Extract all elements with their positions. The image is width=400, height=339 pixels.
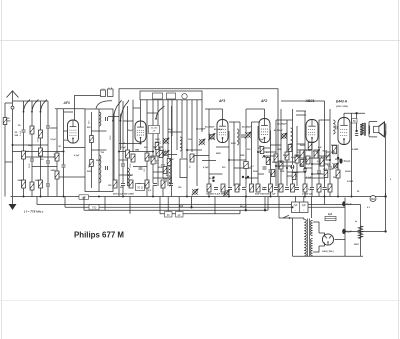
wire main bus 2: [37, 204, 361, 206]
value label z10: [323, 169, 328, 171]
capacitor C20 electrolytic: [342, 201, 352, 206]
meter circle M ohm: [370, 196, 376, 202]
label 7uF bus: [179, 205, 184, 208]
junction dot 16: [351, 196, 353, 198]
trimmer TC8: [281, 133, 288, 140]
svg-text:50pF: 50pF: [303, 159, 308, 161]
rotated label 12: [160, 140, 162, 144]
wire bus stub 8: [303, 197, 305, 203]
wire link 22: [258, 151, 276, 153]
wire link 39: [92, 149, 107, 151]
svg-text:0,1μF: 0,1μF: [313, 151, 319, 153]
wire bus stub 16: [36, 197, 38, 205]
wire mixer vertical 1: [122, 101, 124, 197]
wire link 19: [229, 159, 246, 161]
trimmer TC4 padder: [208, 134, 215, 141]
label EL sub: [336, 105, 348, 108]
wire avc top link: [5, 102, 13, 104]
junction dot 7: [186, 196, 188, 198]
svg-text:45-160pF: 45-160pF: [241, 126, 252, 129]
power transformer T3 secondary lower: [311, 239, 313, 256]
wire link z5: [305, 167, 312, 169]
wire bus stub 9: [311, 197, 313, 219]
value box 50: [352, 118, 357, 123]
wire link 23: [270, 144, 281, 146]
wire t1 inner left: [91, 112, 93, 188]
wire mains return: [292, 218, 294, 256]
wire link 30: [133, 107, 141, 109]
tube V4 AF2 detector: [259, 109, 270, 143]
junction dot 25: [140, 143, 142, 145]
trimmer TC6: [223, 190, 230, 197]
resistor R28: [333, 145, 337, 154]
tuning capacitor section 2: [167, 93, 176, 99]
label tube AF2: [260, 99, 267, 103]
capacitor Cf2: [310, 187, 315, 190]
label 45-160pF osc: [195, 128, 206, 131]
capacitor C10: [138, 166, 143, 169]
value label 9: [144, 147, 148, 149]
wire mixer vertical 13: [186, 100, 188, 197]
resistor R25: [314, 150, 318, 158]
resistor Rz4: [288, 145, 292, 152]
label rectifier type: [322, 251, 334, 253]
label 0,5MOhm: [298, 152, 304, 154]
svg-text:30000: 30000: [345, 171, 351, 173]
resistor Rm3: [163, 167, 167, 174]
wire det branch 7: [296, 126, 298, 186]
loudspeaker driver: [374, 126, 379, 132]
junction dot 24: [311, 163, 313, 165]
scan artifact right rule: [398, 0, 400, 339]
resistor R30 dropper: [358, 226, 362, 239]
value label 24: [120, 187, 124, 189]
resistor R5: [22, 180, 26, 188]
value label r13: [357, 191, 360, 193]
label 0,1uF f: [306, 150, 312, 152]
capacitor C8 t1: [105, 166, 108, 171]
value label z11: [331, 152, 336, 154]
tube V3 AF3 IF amplifier: [217, 109, 228, 143]
resistor R12: [126, 150, 130, 158]
svg-text:0,1μF: 0,1μF: [291, 157, 297, 159]
capacitor C13: [291, 165, 294, 170]
rotated label 4: [89, 120, 91, 124]
wire mixer vertical 12: [181, 100, 183, 158]
wire if top rail: [205, 108, 223, 110]
label 2000: [18, 180, 24, 182]
wire if branch 3: [233, 122, 235, 186]
wire hv secondary top: [313, 222, 319, 233]
svg-text:40-160pF: 40-160pF: [274, 129, 283, 132]
value label r9: [327, 165, 331, 167]
resistor R15: [151, 156, 155, 164]
wire bus stub 17: [104, 197, 106, 211]
wire mixer vertical 10: [171, 100, 173, 136]
label 30uF d: [209, 178, 215, 180]
resistor R24: [306, 156, 310, 164]
wire link 41: [246, 177, 258, 179]
switch S2 wave band: [112, 100, 129, 122]
wire link 29: [64, 111, 74, 113]
terminal block ANT: [101, 89, 106, 97]
svg-text:1000: 1000: [35, 180, 41, 182]
svg-text:50pF: 50pF: [168, 129, 173, 131]
svg-text:8μF: 8μF: [346, 202, 351, 206]
inductor L1 primary: [99, 112, 101, 126]
wire abc1 link 2: [296, 114, 306, 116]
IF transformer T1 shield box: [85, 109, 113, 192]
wire mixer vertical 2: [127, 106, 129, 186]
resistor Rz6: [300, 160, 304, 167]
wire link 1: [13, 151, 64, 153]
wire mains line: [279, 217, 304, 219]
resistor R2: [39, 130, 43, 138]
resistor R9: [55, 171, 59, 179]
wire input branch 3: [40, 101, 42, 197]
tube V6 E443H output: [338, 113, 350, 144]
junction J2: [212, 180, 214, 182]
resistor Rd5: [235, 184, 239, 192]
capacitor Ce6: [285, 187, 290, 190]
label cluster values 1: [113, 194, 134, 196]
wire input branch 1: [23, 101, 25, 197]
wire if branch 2: [228, 131, 230, 197]
value label r22: [64, 140, 69, 142]
wire hv rail: [344, 198, 346, 257]
capacitor C5: [46, 183, 51, 186]
wire det branch 6: [292, 109, 294, 186]
wire mixer vertical 15: [196, 100, 198, 186]
wire screen drop: [356, 113, 358, 131]
resistor Rm2: [159, 151, 163, 158]
svg-text:Philips 677 M: Philips 677 M: [74, 230, 124, 239]
svg-text:30-: 30-: [15, 132, 18, 134]
resistor R26: [320, 158, 324, 166]
label 80uF: [240, 205, 247, 209]
wire det branch 5: [286, 120, 288, 186]
wire bus stub 18: [129, 197, 131, 214]
value label 30: [326, 189, 330, 191]
value label 20: [313, 151, 319, 153]
label 45-160pF if2: [241, 126, 252, 129]
value label 25: [148, 190, 152, 192]
value label 6: [87, 171, 92, 173]
value label r2: [262, 157, 269, 159]
svg-text:50pF 1MΩ 5000 0,1μF: 50pF 1MΩ 5000 0,1μF: [255, 194, 276, 196]
capacitor Cd4: [228, 187, 233, 190]
junction dot 11: [270, 196, 272, 198]
resistor R1: [30, 126, 34, 134]
wire antenna down: [12, 109, 14, 197]
svg-text:E443 H: E443 H: [336, 99, 348, 103]
resistor Re3: [269, 184, 273, 192]
capacitor Cd6: [242, 187, 247, 190]
wire v1 grid lead: [64, 130, 68, 132]
value label z2: [266, 152, 270, 154]
junction dot z5: [318, 149, 320, 151]
value label 23: [352, 149, 359, 151]
capacitor C3: [30, 158, 35, 161]
label cluster values 2: [206, 194, 225, 196]
wire link z3: [276, 165, 292, 167]
wire link 26: [297, 149, 312, 151]
value label 16: [247, 149, 251, 151]
value box 790: [89, 205, 99, 210]
inductor L8 grid choke: [333, 120, 335, 134]
wire link z4: [287, 175, 297, 177]
label 45-160pF det: [276, 123, 287, 126]
value label 11: [169, 159, 174, 161]
wire link 28: [312, 163, 330, 165]
label 1000: [35, 180, 41, 182]
svg-text:50μF: 50μF: [335, 159, 341, 161]
value label r7: [318, 147, 322, 149]
capacitor Cf4: [322, 187, 327, 190]
value label r4: [290, 167, 295, 169]
svg-text:2MΩ: 2MΩ: [283, 155, 288, 157]
resistor R18: [244, 162, 249, 169]
value label 5: [101, 152, 105, 154]
value label r19: [168, 129, 173, 131]
junction dot z8: [304, 167, 306, 169]
resistor Rz5: [292, 173, 296, 180]
wire abc1 link 1: [296, 110, 306, 112]
label m2: [163, 150, 167, 152]
svg-text:1MΩ: 1MΩ: [280, 171, 285, 173]
wire link z1: [258, 147, 270, 149]
output transformer T2 secondary: [368, 126, 369, 134]
svg-text:50pF: 50pF: [323, 151, 328, 153]
junction J1: [212, 176, 214, 178]
wire link 17: [192, 155, 209, 157]
wire output top rail: [344, 112, 365, 114]
value box 30uF b: [176, 212, 184, 218]
resistor R11: [90, 160, 94, 167]
trimmer TC9: [245, 132, 252, 139]
rotated label 5: [89, 164, 91, 168]
value label r10: [333, 177, 337, 179]
wire link 15: [153, 171, 168, 173]
capacitor Ce4: [274, 187, 279, 190]
wire link 24: [281, 161, 297, 163]
value label 26: [178, 187, 182, 189]
junction dot 15: [337, 196, 339, 198]
svg-text:0,5MΩ 1μF: 0,5MΩ 1μF: [302, 194, 313, 196]
tuning gang box: [140, 91, 202, 100]
value label z7: [303, 159, 308, 161]
wire rf branch 1: [56, 109, 58, 197]
wire link 3: [32, 166, 57, 168]
svg-text:50pF: 50pF: [259, 139, 265, 141]
svg-text:70 Ω: 70 Ω: [137, 186, 143, 190]
svg-text:50pF: 50pF: [128, 130, 134, 132]
value label r15: [214, 128, 223, 131]
wire mixer vertical 11: [176, 100, 178, 150]
inductor L5: [291, 128, 293, 144]
svg-text:( f = 778 kHz ): ( f = 778 kHz ): [24, 210, 43, 214]
resistor R4: [39, 148, 43, 156]
svg-text:1MΩ: 1MΩ: [240, 155, 245, 157]
svg-text:30000: 30000: [331, 145, 338, 147]
junction J6: [190, 206, 192, 208]
svg-text:4μF: 4μF: [302, 204, 307, 207]
junction dot 19: [152, 151, 154, 153]
label cluster values 4: [302, 194, 313, 196]
wire link 12: [119, 174, 133, 176]
svg-text:0,1μF: 0,1μF: [20, 130, 22, 136]
value label r6: [306, 177, 312, 179]
wire abc1 branch 3: [318, 120, 320, 197]
junction dot d2: [247, 176, 249, 178]
value label z3: [272, 162, 276, 164]
power transformer T3 secondary upper: [311, 221, 313, 236]
dial drive: [182, 94, 187, 99]
rotated label 10: [110, 135, 112, 140]
resistor Rb5: [145, 180, 149, 188]
junction J7: [245, 209, 247, 211]
resistor Rm4: [167, 159, 171, 166]
resistor R23: [300, 150, 304, 158]
svg-text:790: 790: [92, 206, 97, 210]
wire det branch 3: [275, 120, 277, 186]
capacitor Cb4: [137, 183, 142, 186]
junction dot z3: [286, 167, 288, 169]
inductor L2 secondary: [99, 155, 101, 183]
resistor Re5: [279, 184, 283, 192]
wire bus stub 10: [324, 197, 326, 205]
wire link 20: [234, 167, 252, 169]
junction dot 12: [292, 206, 294, 208]
wire bus stub 6: [264, 197, 266, 211]
svg-text:40-160: 40-160: [151, 128, 158, 130]
wire link 27: [305, 157, 319, 159]
value label r8: [321, 157, 325, 159]
resistor R22: [295, 155, 299, 163]
wire hv secondary bottom: [313, 246, 319, 252]
resistor R17: [190, 154, 194, 162]
wire bus stub 15: [64, 197, 66, 208]
svg-text:50pF: 50pF: [28, 145, 33, 147]
value label 12: [188, 139, 192, 141]
resistor R21: [285, 152, 289, 160]
resistor Rz2: [266, 158, 270, 165]
rotated label 2: [29, 163, 31, 168]
tube V5 ABC1: [306, 120, 318, 143]
wire rectifier out: [335, 239, 346, 241]
svg-text:0,1μF: 0,1μF: [51, 139, 57, 141]
wire link 10: [119, 159, 128, 161]
svg-text:0,5MΩ: 0,5MΩ: [148, 157, 154, 159]
value label 3: [59, 146, 62, 148]
junction dot 26: [245, 177, 247, 179]
wire link 33: [229, 121, 240, 123]
wire bus stub 4: [214, 197, 216, 214]
svg-text:385V: 385V: [354, 244, 359, 246]
wire link 31: [147, 112, 158, 114]
wire mixer vertical 3: [132, 100, 134, 152]
wire mixer vertical 8: [167, 100, 169, 186]
svg-text:50μF: 50μF: [344, 159, 351, 163]
wire det top rail: [246, 108, 265, 110]
junction dot 10: [245, 196, 247, 198]
value label 28: [262, 189, 266, 191]
junction dot z4: [296, 155, 298, 157]
label 50pF f: [323, 151, 328, 153]
label 2uF: [328, 213, 333, 216]
label m4: [166, 175, 169, 177]
wire main bus 3: [65, 206, 345, 208]
rotated label 1: [20, 130, 22, 136]
wire abc1 branch 4: [324, 101, 326, 197]
svg-text:MΩ: MΩ: [371, 197, 375, 201]
junction dot 2: [40, 196, 42, 198]
trimmer TC3 padder: [199, 139, 206, 146]
label m3: [158, 167, 162, 169]
title Philips 677 M: [74, 230, 124, 239]
value label r21: [108, 185, 112, 187]
rotated label 7: [130, 163, 132, 168]
value label r26: [96, 160, 101, 162]
label 50000: [51, 170, 57, 172]
resistor R14: [145, 153, 149, 161]
junction dot 27: [186, 149, 188, 151]
wire shield box outline: [119, 89, 278, 197]
wire link 44: [153, 177, 172, 179]
wire input branch 2: [31, 101, 33, 197]
label tube ABC1: [305, 99, 315, 103]
value label z1: [259, 146, 262, 148]
label m1: [155, 142, 160, 144]
wire link z2: [264, 155, 276, 157]
wire link 14: [163, 154, 177, 156]
value label z8: [311, 142, 315, 144]
value label 15: [231, 143, 236, 145]
capacitor C19 electrolytic: [339, 158, 350, 163]
svg-text:7μF: 7μF: [179, 205, 184, 208]
wire link 18: [202, 160, 216, 162]
scan artifact left rule: [1, 0, 3, 339]
output transformer T2 core: [364, 123, 365, 136]
svg-text:( EL2 / 384 ): ( EL2 / 384 ): [336, 105, 348, 108]
junction dot 22: [280, 161, 282, 163]
resistor R20: [279, 161, 283, 169]
wire mixer vertical 14: [191, 100, 193, 152]
junction dot 13: [304, 196, 306, 198]
wire if branch 5: [245, 109, 247, 197]
capacitor Cm1: [155, 160, 160, 163]
value label r3: [283, 155, 288, 157]
wire input top rail: [13, 100, 49, 102]
resistor Rb3: [129, 180, 133, 188]
junction dot z7: [275, 165, 277, 167]
antenna: [7, 91, 19, 110]
wire link 7: [108, 116, 119, 118]
label 0,1uF: [26, 151, 30, 153]
resistor R29: [336, 170, 340, 178]
wire abc1 branch 5: [329, 109, 331, 197]
wire psu bottom: [293, 255, 364, 257]
value label r16: [222, 167, 226, 169]
wire rf top rail: [55, 108, 85, 110]
resistor Rz7: [308, 143, 312, 150]
junction dot 20: [12, 144, 14, 146]
value label 10: [155, 139, 160, 141]
capacitor Cb8: [169, 183, 174, 186]
scan artifact bottom rule: [0, 300, 400, 302]
value label r25: [74, 155, 80, 157]
label F=778kHz: [24, 210, 43, 214]
